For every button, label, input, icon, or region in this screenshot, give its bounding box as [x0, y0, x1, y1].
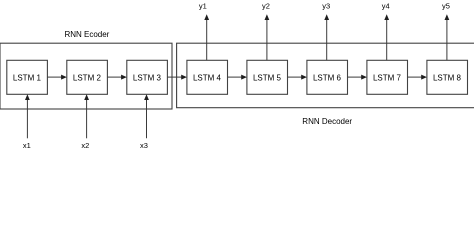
arrowhead x3: [144, 94, 149, 100]
arrowhead into LSTM5: [241, 75, 247, 80]
arrowhead into LSTM3: [121, 75, 127, 80]
decoder outer box: [177, 43, 474, 108]
arrowhead x2: [84, 94, 89, 100]
LSTM 8 box: [427, 60, 468, 94]
svg-text:LSTM 5: LSTM 5: [253, 73, 282, 82]
wire x2 input: [86, 100, 88, 139]
arrowhead y3: [324, 14, 329, 20]
LSTM 6 box: [307, 60, 348, 94]
encoder outer box: [0, 43, 172, 109]
arrowhead into LSTM6: [301, 75, 307, 80]
wire x1 input: [26, 100, 28, 139]
wire LSTM5 to LSTM6: [288, 76, 302, 78]
svg-text:y1: y1: [199, 2, 207, 11]
arrowhead into LSTM4: [181, 75, 187, 80]
arrowhead into LSTM2: [61, 75, 67, 80]
arrowhead into LSTM8: [421, 75, 427, 80]
svg-text:RNN Ecoder: RNN Ecoder: [64, 30, 109, 39]
svg-text:y5: y5: [442, 2, 450, 11]
wire y2 output: [266, 20, 268, 61]
wire y5 output: [446, 20, 448, 61]
arrowhead y2: [265, 14, 270, 20]
svg-text:LSTM 1: LSTM 1: [13, 73, 42, 82]
arrowhead x1: [25, 94, 30, 100]
wire LSTM6 to LSTM7: [348, 76, 362, 78]
svg-text:y4: y4: [382, 2, 390, 11]
wire y3 output: [326, 20, 328, 61]
svg-text:LSTM 4: LSTM 4: [193, 73, 222, 82]
LSTM 5 box: [247, 60, 288, 94]
svg-text:y3: y3: [322, 2, 330, 11]
LSTM 4 box: [187, 60, 228, 94]
svg-text:RNN Decoder: RNN Decoder: [302, 117, 352, 126]
svg-text:LSTM 3: LSTM 3: [133, 73, 162, 82]
svg-text:LSTM 2: LSTM 2: [73, 73, 102, 82]
wire LSTM4 to LSTM5: [228, 76, 242, 78]
wire LSTM1 to LSTM2: [47, 76, 61, 78]
LSTM 7 box: [367, 60, 408, 94]
wire LSTM2 to LSTM3: [107, 76, 121, 78]
arrowhead into LSTM7: [361, 75, 367, 80]
svg-text:LSTM 8: LSTM 8: [433, 73, 462, 82]
LSTM 1 box: [7, 60, 48, 94]
arrowhead y4: [384, 14, 389, 20]
wire y4 output: [386, 20, 388, 61]
svg-text:x2: x2: [81, 141, 89, 150]
LSTM 2 box: [67, 60, 108, 94]
LSTM 3 box: [127, 60, 168, 94]
svg-text:LSTM 7: LSTM 7: [373, 73, 402, 82]
arrowhead y5: [445, 14, 450, 20]
svg-text:x3: x3: [140, 141, 148, 150]
svg-text:x1: x1: [23, 141, 31, 150]
svg-text:y2: y2: [262, 2, 270, 11]
wire LSTM7 to LSTM8: [408, 76, 422, 78]
wire LSTM3 to LSTM4: [167, 76, 181, 78]
svg-text:LSTM 6: LSTM 6: [313, 73, 342, 82]
wire y1 output: [206, 20, 208, 61]
arrowhead y1: [204, 14, 209, 20]
wire x3 input: [146, 100, 148, 139]
